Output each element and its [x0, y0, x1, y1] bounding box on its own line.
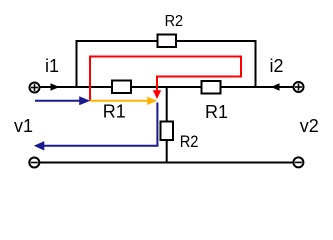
wire main horizontal middle segment	[131, 86, 202, 88]
resistor R2 (top bridge)	[158, 35, 177, 48]
arrow i1 direction (black, right)	[51, 83, 60, 91]
resistor R2 (shunt, vertical)	[161, 122, 174, 141]
current path red (through bridge R2)	[90, 57, 241, 101]
terminal + (input, right)	[294, 82, 304, 92]
wire main horizontal right segment	[221, 86, 294, 88]
wire top horizontal left of R2	[76, 40, 158, 42]
current path blue lower (return current)	[43, 103, 157, 146]
svg-text:R2: R2	[180, 132, 199, 151]
wire top-left vertical	[76, 41, 78, 87]
arrow red (down into node)	[153, 90, 161, 99]
terminal - (right)	[293, 157, 303, 167]
arrow blue upper (right)	[79, 96, 90, 105]
wire center branch upper	[166, 87, 168, 122]
svg-text:v2: v2	[300, 116, 319, 136]
svg-text:R2: R2	[165, 13, 184, 30]
arrow blue lower (left)	[34, 141, 45, 150]
arrow i2 direction (black, left)	[271, 83, 280, 91]
svg-text:R1: R1	[103, 102, 126, 122]
current path orange (through R1 left)	[90, 100, 148, 102]
resistor R1 (right series)	[202, 81, 221, 94]
svg-text:i2: i2	[270, 56, 284, 76]
current path blue upper (input current)	[35, 100, 80, 102]
wire bottom return	[40, 162, 293, 164]
resistor R1 (left series)	[112, 81, 131, 94]
svg-text:v1: v1	[14, 116, 33, 136]
svg-text:i1: i1	[45, 56, 59, 76]
terminal + (input, left)	[30, 83, 40, 93]
wire top horizontal right of R2	[176, 40, 257, 42]
terminal - (left)	[29, 158, 39, 168]
wire top-right vertical	[255, 41, 257, 87]
wire main horizontal left segment	[41, 86, 113, 88]
wire center branch lower	[166, 140, 168, 163]
arrow orange (right into node)	[147, 97, 157, 105]
svg-text:R1: R1	[205, 102, 228, 122]
